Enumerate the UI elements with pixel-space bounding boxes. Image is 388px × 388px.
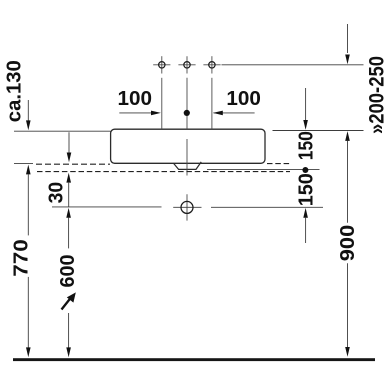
dimension 150 upper (rim to counter) bbox=[296, 88, 318, 160]
svg-text:900: 900 bbox=[337, 225, 359, 262]
drain centerline dimension line bbox=[52, 206, 323, 208]
svg-text:»200-250: »200-250 bbox=[366, 56, 388, 134]
drain notch on basin underside bbox=[173, 162, 201, 170]
extension line below right faucet hole bbox=[211, 78, 213, 129]
faucet hole circle right bbox=[203, 56, 220, 73]
rim extension line left bbox=[14, 130, 111, 132]
washbasin outline bbox=[111, 129, 265, 163]
centerline below center faucet hole bbox=[186, 78, 188, 221]
basin bottom reference line left bbox=[14, 162, 33, 164]
svg-text:150: 150 bbox=[296, 131, 318, 160]
dimension ca.130 bbox=[4, 60, 31, 130]
drain circle bbox=[181, 201, 193, 213]
dimension 100 left bbox=[118, 88, 161, 115]
separator dot between 150 and 150 bbox=[302, 167, 308, 173]
adjustability diagonal arrow bbox=[62, 292, 76, 309]
dimension 600 bbox=[57, 208, 79, 357]
ground line bbox=[13, 358, 375, 361]
dimension 30 lower arrow and text bbox=[45, 173, 71, 207]
dimension 150 lower (counter to drain) bbox=[296, 173, 318, 243]
faucet supply line bbox=[222, 64, 364, 66]
faucet hole circle left bbox=[153, 56, 170, 73]
rim extension line right bbox=[273, 130, 364, 132]
svg-text:30: 30 bbox=[45, 182, 67, 204]
countertop dashed line bbox=[37, 171, 290, 173]
svg-text:770: 770 bbox=[10, 239, 32, 277]
svg-text:100: 100 bbox=[118, 88, 153, 110]
console surface thin line right bbox=[207, 169, 320, 171]
svg-text:ca.130: ca.130 bbox=[4, 60, 26, 122]
dot on centerline at dim line bbox=[184, 110, 190, 116]
svg-text:150: 150 bbox=[296, 173, 318, 206]
dimension 900 bbox=[337, 141, 359, 357]
dashed line right of basin at bottom level bbox=[267, 163, 292, 165]
svg-text:100: 100 bbox=[226, 88, 261, 110]
dimension 30 upper arrow bbox=[67, 132, 72, 162]
dashed line left of basin at bottom level bbox=[36, 163, 110, 165]
svg-text:600: 600 bbox=[57, 255, 79, 288]
dimension 100 right bbox=[213, 88, 261, 115]
dimension »200-250 arrows bbox=[345, 24, 388, 141]
dimension 770 bbox=[10, 165, 32, 358]
faucet hole circle center bbox=[178, 56, 195, 73]
extension line below left faucet hole bbox=[161, 78, 163, 129]
